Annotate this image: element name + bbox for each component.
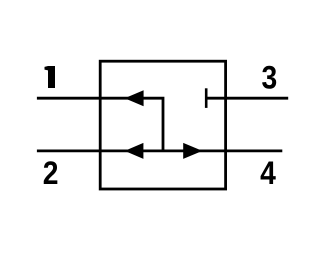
arrow on pin 1 wire (pointing left) xyxy=(125,90,144,106)
svg-text:2: 2 xyxy=(43,155,59,191)
wire pin 2 to pin 4 xyxy=(37,149,282,152)
pin 1 label xyxy=(45,66,56,88)
arrow on pin 2 wire (pointing left) xyxy=(125,143,144,159)
svg-text:4: 4 xyxy=(260,155,276,191)
wire pin 1 to internal corner xyxy=(37,98,163,151)
svg-text:3: 3 xyxy=(262,60,278,96)
wire pin 3 xyxy=(206,97,288,100)
device outline U1 xyxy=(100,61,225,189)
gate tick at end of pin 3 wire xyxy=(205,88,208,108)
arrow on pin 4 wire (pointing right) xyxy=(183,143,202,159)
